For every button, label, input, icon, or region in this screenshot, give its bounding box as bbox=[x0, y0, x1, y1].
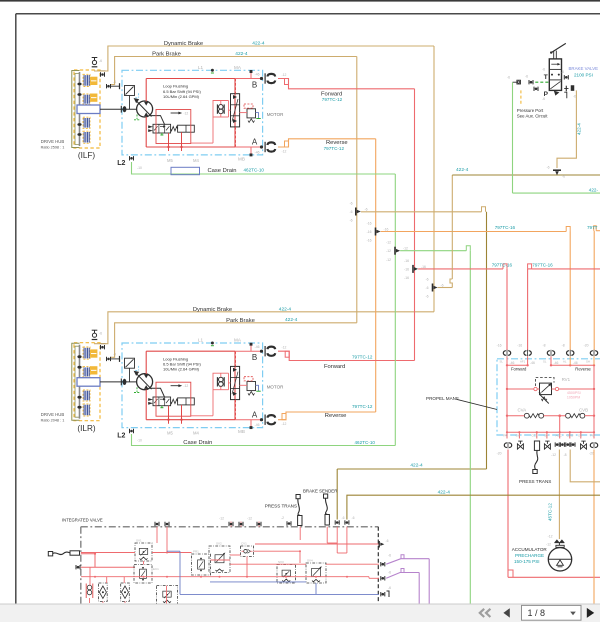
svg-text:-12: -12 bbox=[183, 111, 188, 115]
port B line ILR (red box top to B) bbox=[235, 343, 263, 353]
label RV1 pressure (pink) bbox=[567, 391, 581, 400]
svg-text:L1: L1 bbox=[198, 338, 204, 343]
L1 port tick ILF bbox=[211, 69, 214, 73]
svg-text:-16: -16 bbox=[404, 276, 409, 280]
wire dynamic brake ILR (tan) bbox=[94, 312, 434, 344]
svg-text:RV1: RV1 bbox=[562, 377, 571, 382]
pilot dashes ILR (red) bbox=[229, 351, 236, 419]
accumulator inlet fitting bbox=[546, 535, 564, 548]
drive hub ILR axle block bbox=[77, 378, 100, 387]
svg-text:-12: -12 bbox=[219, 517, 224, 521]
iv wiring red interconnects bbox=[81, 522, 379, 605]
svg-text:T: T bbox=[544, 74, 548, 81]
left edge fitting bbox=[76, 565, 80, 569]
brake shuttle relief ILF bbox=[240, 104, 261, 122]
wire 422-4 trunk y=175 (olive) bbox=[452, 174, 600, 176]
junction J1 park brake (tan) bbox=[349, 202, 367, 223]
svg-text:AF1: AF1 bbox=[520, 359, 526, 363]
manifold bottom fittings bbox=[497, 441, 598, 457]
fitting on boundary x=289 bbox=[281, 516, 291, 526]
label DRIVE HUB ILF bbox=[41, 139, 65, 149]
port B coupler ILF bbox=[265, 73, 286, 84]
junction J5 dynamic brake tie (tan) bbox=[425, 278, 443, 299]
wire forward vertical x=414.5 bbox=[414, 89, 416, 361]
svg-text:422-: 422- bbox=[589, 187, 599, 192]
svg-text:Park Brake: Park Brake bbox=[226, 318, 255, 324]
svg-text:M4: M4 bbox=[193, 158, 199, 163]
hub ILR bleeder fitting bbox=[92, 330, 102, 339]
wire manifold PA down (red) bbox=[508, 450, 600, 578]
svg-text:-6: -6 bbox=[99, 332, 102, 336]
shuttle wiring ILR (red) bbox=[191, 373, 229, 416]
manifold top port names bbox=[500, 359, 590, 363]
svg-text:2100 PSI: 2100 PSI bbox=[574, 73, 593, 78]
svg-text:-6: -6 bbox=[542, 68, 545, 72]
svg-text:BRAKE SENDER: BRAKE SENDER bbox=[303, 489, 337, 494]
toolbar next-page arrow bbox=[587, 608, 594, 618]
main relief valve ILF (vertical 3-section) bbox=[231, 94, 240, 127]
svg-text:797TC-16: 797TC-16 bbox=[532, 263, 553, 268]
wire brake valve feed (tan) bbox=[557, 90, 576, 168]
svg-text:BRAKE VALVE: BRAKE VALVE bbox=[569, 66, 599, 71]
bulkhead fitting on 422-4 trunk bbox=[546, 166, 565, 179]
loop flushing box ILF (red) bbox=[146, 79, 235, 148]
drive hub ILR shaft bbox=[77, 345, 81, 419]
svg-text:797TC-12: 797TC-12 bbox=[324, 146, 345, 151]
port A coupler ILR bbox=[265, 415, 286, 427]
orifice ILF (square with diagonal) bbox=[125, 86, 135, 110]
accumulator gas charge triangle bbox=[557, 560, 564, 567]
manifold bottom port labels bbox=[503, 433, 595, 437]
drive hub ILF gear blocks (yellow) bbox=[91, 77, 98, 101]
shuttle valve ILF bbox=[217, 104, 224, 113]
svg-text:See Aux. Circuit: See Aux. Circuit bbox=[517, 114, 548, 119]
svg-text:SV4: SV4 bbox=[307, 559, 313, 563]
svg-text:-12: -12 bbox=[282, 149, 287, 153]
svg-text:-46: -46 bbox=[510, 361, 515, 365]
wire red vertical x=507 to manifold bbox=[506, 269, 508, 350]
svg-text:797TC-16: 797TC-16 bbox=[495, 225, 516, 230]
svg-text:10L/Min (2.64 GPM): 10L/Min (2.64 GPM) bbox=[163, 94, 200, 99]
wire case drain trunk y=250.7 (green) bbox=[400, 246, 470, 251]
svg-text:L1: L1 bbox=[198, 65, 204, 70]
wire orange vertical x=570.2 to manifold bbox=[569, 232, 571, 351]
drive hub ILF brake packs (blue discs) bbox=[83, 74, 90, 143]
hub ILF brake port fitting 2 bbox=[107, 80, 120, 89]
shuttle wiring ILF (red) bbox=[191, 101, 229, 144]
brake valve T drain fittings bbox=[507, 75, 533, 85]
junction J3 case drain (green) bbox=[386, 241, 408, 262]
svg-text:DRIVE HUB: DRIVE HUB bbox=[41, 139, 65, 144]
brake valve body (3-position) bbox=[549, 59, 561, 96]
svg-text:Ratio 2048 : 1: Ratio 2048 : 1 bbox=[41, 418, 65, 422]
shift spool ILF bbox=[178, 125, 195, 132]
svg-text:PB: PB bbox=[591, 433, 595, 437]
svg-text:ACC: ACC bbox=[556, 433, 563, 437]
svg-text:-46: -46 bbox=[255, 423, 260, 427]
svg-text:45TC-12: 45TC-12 bbox=[548, 503, 553, 521]
wire case drain vertical x=395.3 bbox=[394, 174, 396, 446]
svg-text:-12: -12 bbox=[282, 346, 287, 350]
port A coupler ILF bbox=[265, 142, 286, 154]
iv valve SV4 bbox=[306, 559, 326, 584]
wire orange from right edge x=594.2 bbox=[594, 226, 600, 351]
toolbar page box 1 / 8 bbox=[522, 605, 582, 620]
svg-text:-6: -6 bbox=[342, 516, 345, 520]
svg-text:-12: -12 bbox=[386, 241, 391, 245]
svg-text:-6: -6 bbox=[349, 210, 352, 214]
drive hub ILF yellow housing bbox=[72, 70, 100, 148]
wire forward ILF (red) bbox=[278, 79, 415, 89]
svg-text:-8: -8 bbox=[562, 344, 565, 348]
svg-text:797TC-12: 797TC-12 bbox=[352, 404, 373, 409]
svg-text:-46: -46 bbox=[255, 72, 260, 76]
svg-text:-46: -46 bbox=[573, 361, 578, 365]
toolbar first-page button (double chevron, disabled) bbox=[480, 609, 491, 617]
svg-text:-12: -12 bbox=[247, 517, 252, 521]
wire reverse trunk y=231.5 (orange) bbox=[381, 227, 571, 232]
wire park brake ILF (tan) bbox=[111, 57, 357, 85]
hub ILR brake port fitting 1 bbox=[100, 344, 106, 350]
svg-text:-6: -6 bbox=[441, 283, 444, 287]
hub ILF brake port fitting 1 bbox=[100, 71, 106, 77]
propel manifold boundary (light blue) bbox=[497, 359, 600, 435]
viewer top edge bar bbox=[0, 0, 600, 2]
svg-text:G2: G2 bbox=[578, 433, 582, 437]
iv check valve C1 (dual circle) bbox=[86, 584, 93, 599]
svg-text:-6: -6 bbox=[425, 278, 428, 282]
pressure transducer manifold bbox=[533, 441, 540, 474]
svg-text:-6: -6 bbox=[546, 166, 549, 170]
shuttle valve ILR bbox=[217, 377, 224, 386]
iv valve SV2 bbox=[209, 542, 230, 573]
svg-text:MOTOR: MOTOR bbox=[267, 385, 284, 390]
svg-text:Forward: Forward bbox=[511, 366, 527, 371]
inner pilot red box ILF bbox=[156, 110, 191, 144]
svg-text:422-4: 422-4 bbox=[410, 463, 423, 469]
wire olive vertical x=337.2 into integrated valve bbox=[336, 469, 338, 520]
flushing valve ILF (3-pos directional) bbox=[148, 124, 177, 135]
svg-text:DRIVE HUB: DRIVE HUB bbox=[41, 412, 65, 417]
wire olive vertical x=486.5 down bbox=[486, 212, 488, 469]
pilot arrow ILF bbox=[171, 111, 189, 115]
svg-text:422-4: 422-4 bbox=[438, 490, 451, 496]
svg-text:-16: -16 bbox=[421, 265, 426, 269]
manifold forward gallery (red) bbox=[506, 364, 529, 432]
svg-text:797T: 797T bbox=[587, 225, 598, 230]
svg-text:422-4: 422-4 bbox=[456, 167, 469, 173]
CV gallery wiring (red) bbox=[506, 414, 595, 432]
wire dynamic brake vertical x=434 to ILR bbox=[433, 46, 435, 312]
loop flushing text ILR bbox=[163, 356, 201, 371]
svg-text:AL: AL bbox=[563, 359, 567, 363]
svg-text:Park Brake: Park Brake bbox=[152, 52, 181, 58]
svg-text:PA: PA bbox=[503, 433, 507, 437]
left harness connector bbox=[48, 551, 79, 556]
svg-text:-6: -6 bbox=[365, 207, 368, 211]
integrated valve boundary (gray dash-dot) bbox=[81, 527, 379, 604]
pilot dashes ILF (red) bbox=[229, 79, 236, 147]
svg-text:1050PM: 1050PM bbox=[567, 395, 580, 399]
svg-text:-6: -6 bbox=[352, 516, 355, 520]
svg-text:462TC-10: 462TC-10 bbox=[244, 168, 265, 173]
svg-text:-12: -12 bbox=[551, 453, 556, 457]
wire purple 2 bbox=[386, 569, 419, 605]
svg-text:Dynamic Brake: Dynamic Brake bbox=[193, 307, 232, 313]
svg-text:-16: -16 bbox=[367, 230, 372, 234]
svg-text:MOTOR: MOTOR bbox=[267, 112, 284, 117]
wire 422-4 bottom run 2 (olive) bbox=[347, 495, 600, 519]
case drain fitting L2 ILF bbox=[117, 156, 142, 170]
pilot arrow ILR bbox=[171, 384, 189, 388]
svg-text:-8: -8 bbox=[542, 344, 545, 348]
svg-text:MB: MB bbox=[238, 157, 245, 162]
svg-text:-20: -20 bbox=[589, 452, 594, 456]
svg-text:-6: -6 bbox=[573, 95, 576, 99]
svg-text:CHO: CHO bbox=[567, 433, 574, 437]
hub ILF bleeder fitting bbox=[92, 58, 102, 67]
svg-text:-10: -10 bbox=[137, 439, 142, 443]
svg-text:(ILR): (ILR) bbox=[77, 424, 95, 433]
svg-text:422-4: 422-4 bbox=[279, 307, 292, 313]
shaft link ILF hub to motor bbox=[100, 106, 137, 113]
motor boundary box ILF (light blue) bbox=[122, 70, 263, 155]
svg-text:-12: -12 bbox=[183, 384, 188, 388]
svg-text:150-175 PSI: 150-175 PSI bbox=[514, 559, 540, 564]
drive hub ILR yellow housing bbox=[72, 343, 100, 421]
wire red from right edge to manifold (x=527.6) bbox=[528, 264, 600, 350]
junction J4 forward (red) bbox=[404, 259, 426, 280]
svg-text:Case Drain: Case Drain bbox=[183, 440, 212, 446]
svg-text:Pressure Port: Pressure Port bbox=[517, 108, 544, 113]
svg-text:PROPEL MANF: PROPEL MANF bbox=[426, 396, 459, 401]
svg-text:MA: MA bbox=[234, 65, 242, 70]
svg-text:Reverse: Reverse bbox=[325, 413, 347, 419]
svg-text:-6: -6 bbox=[507, 76, 510, 80]
wire park brake ILR (tan) bbox=[111, 323, 357, 358]
svg-text:-12: -12 bbox=[548, 535, 553, 539]
wire 422-4 bottom run 1 (olive) bbox=[337, 468, 486, 470]
svg-text:-16: -16 bbox=[367, 239, 372, 243]
svg-text:CC2: CC2 bbox=[532, 433, 538, 437]
svg-text:Reverse: Reverse bbox=[575, 366, 591, 371]
svg-text:-46: -46 bbox=[530, 361, 535, 365]
svg-text:PRESS TRANS: PRESS TRANS bbox=[519, 479, 551, 484]
wire J5 branch to 422-4 riser bbox=[438, 175, 453, 288]
brake shuttle relief ILR bbox=[240, 377, 261, 395]
wire park brake trunk right y=212 (olive) bbox=[361, 207, 486, 212]
svg-text:-20: -20 bbox=[544, 433, 549, 437]
svg-text:-12: -12 bbox=[546, 543, 551, 547]
hub ILR brake port fitting 2 bbox=[107, 353, 120, 362]
svg-text:INTEGRATED VALVE: INTEGRATED VALVE bbox=[62, 517, 103, 522]
iv valve PR1 bbox=[192, 550, 211, 576]
svg-text:SH: SH bbox=[586, 359, 590, 363]
shift spool ILR bbox=[178, 398, 195, 405]
iv check valve C3 (diamond) bbox=[121, 583, 130, 601]
inner pilot red box ILR bbox=[156, 382, 191, 416]
loop flushing box ILR (red) bbox=[146, 351, 235, 420]
svg-text:-6: -6 bbox=[388, 586, 391, 590]
wire accumulator feed (tan) bbox=[558, 450, 560, 540]
accumulator shell bbox=[548, 548, 571, 571]
svg-text:-6: -6 bbox=[386, 539, 389, 543]
main relief valve ILR (vertical 3-section) bbox=[231, 366, 240, 399]
svg-text:Case Drain: Case Drain bbox=[208, 168, 237, 174]
iv edge fitting red 1 bbox=[379, 539, 388, 548]
svg-text:-16: -16 bbox=[367, 222, 372, 226]
svg-text:-2: -2 bbox=[281, 516, 284, 520]
svg-text:-46: -46 bbox=[255, 151, 260, 155]
wire brake feed right (tan) bbox=[570, 450, 600, 482]
svg-text:-10: -10 bbox=[137, 166, 142, 170]
motor boundary box ILR (light blue) bbox=[122, 343, 263, 428]
svg-text:B: B bbox=[252, 353, 257, 362]
wire case drain ILF (green) bbox=[132, 162, 396, 174]
svg-text:-12: -12 bbox=[386, 249, 391, 253]
wire reverse vertical x=375.7 bbox=[375, 139, 377, 412]
svg-text:797TC-12: 797TC-12 bbox=[322, 97, 343, 102]
brake valve port T bbox=[535, 68, 549, 83]
wire dynamic brake ILF (tan) bbox=[94, 46, 434, 71]
port A line ILR bbox=[235, 418, 263, 429]
svg-text:-8: -8 bbox=[563, 453, 566, 457]
svg-text:-6: -6 bbox=[542, 97, 545, 101]
svg-text:-6: -6 bbox=[562, 175, 565, 179]
svg-text:Ratio 2598 : 1: Ratio 2598 : 1 bbox=[41, 146, 65, 150]
svg-text:1 / 8: 1 / 8 bbox=[528, 608, 546, 618]
port B coupler ILR bbox=[265, 346, 286, 357]
toolbar prev-page arrow bbox=[503, 608, 509, 617]
pdf viewer toolbar bbox=[0, 604, 600, 622]
svg-text:CVB: CVB bbox=[579, 407, 588, 412]
drive hub ILF shaft bbox=[77, 72, 81, 146]
svg-text:PR1: PR1 bbox=[193, 550, 199, 554]
svg-text:797TC-16: 797TC-16 bbox=[492, 263, 513, 268]
manifold port drops (red) bbox=[507, 356, 578, 365]
svg-text:462TC-10: 462TC-10 bbox=[355, 440, 376, 445]
svg-text:-6: -6 bbox=[388, 571, 391, 575]
port A line ILF bbox=[235, 145, 263, 156]
manifold reverse gallery (red) bbox=[550, 356, 595, 432]
iv edge fitting purple 1 bbox=[381, 554, 391, 567]
svg-text:M5: M5 bbox=[167, 431, 173, 436]
iv solenoid valve SV1 bbox=[135, 539, 152, 562]
svg-text:Forward: Forward bbox=[324, 364, 345, 370]
svg-text:CV1: CV1 bbox=[241, 542, 247, 546]
svg-text:-16: -16 bbox=[384, 227, 389, 231]
brake valve port P bbox=[534, 87, 549, 101]
iv edge fitting purple 2 bbox=[381, 571, 391, 581]
svg-text:-16: -16 bbox=[517, 344, 522, 348]
svg-text:SL: SL bbox=[543, 359, 547, 363]
flushing drain lines ILF (red) bbox=[167, 132, 182, 151]
svg-text:A: A bbox=[252, 138, 258, 147]
hydraulic motor ILR bbox=[134, 366, 165, 397]
iv wiring blue interconnects bbox=[167, 551, 379, 594]
wire reverse ILF (orange) bbox=[278, 139, 376, 147]
flushing valve ILR (3-pos directional) bbox=[148, 397, 177, 408]
svg-text:422-4: 422-4 bbox=[235, 51, 248, 57]
svg-text:-6: -6 bbox=[349, 219, 352, 223]
svg-text:SV3: SV3 bbox=[278, 560, 284, 564]
svg-text:10L/Min (2.64 GPM): 10L/Min (2.64 GPM) bbox=[163, 367, 200, 372]
press trans sender 1 bbox=[296, 495, 302, 526]
svg-text:CVA: CVA bbox=[518, 407, 527, 412]
relief valve RV1 bbox=[536, 377, 555, 403]
check valve CVA bbox=[524, 413, 543, 418]
svg-text:M4: M4 bbox=[193, 431, 199, 436]
wire case drain ILR (green) bbox=[132, 434, 396, 446]
wire green vertical x=470.3 down bbox=[469, 251, 471, 604]
svg-text:-12: -12 bbox=[282, 73, 287, 77]
iv check valve C2 (diamond) bbox=[99, 583, 108, 601]
svg-text:(ILF): (ILF) bbox=[78, 151, 96, 160]
wire forward ILR (red) bbox=[278, 351, 415, 360]
iv edge fitting blue bbox=[381, 586, 391, 597]
svg-text:-6: -6 bbox=[99, 59, 102, 63]
wire park brake vertical x=356.8 to ILR bbox=[356, 57, 358, 323]
pressure port pilot (yellow dashed) bbox=[520, 90, 522, 105]
iv valve DR1 bbox=[157, 586, 178, 609]
svg-text:PRECHARGE: PRECHARGE bbox=[515, 553, 544, 558]
svg-text:M5: M5 bbox=[167, 158, 173, 163]
iv top boundary fittings bbox=[155, 517, 261, 527]
svg-text:-6: -6 bbox=[425, 286, 428, 290]
svg-text:-6: -6 bbox=[525, 75, 528, 79]
svg-text:Dynamic Brake: Dynamic Brake bbox=[164, 41, 203, 47]
iv wiring red feed top bbox=[81, 553, 135, 568]
svg-text:L2: L2 bbox=[117, 160, 125, 167]
svg-text:-46: -46 bbox=[554, 361, 559, 365]
brake valve lever bbox=[550, 43, 566, 59]
wire forward trunk y=268.9 (red) bbox=[418, 264, 507, 269]
hydraulic motor ILF bbox=[134, 93, 165, 124]
drive hub ILF axle block bbox=[77, 105, 100, 114]
shaft link ILR hub to motor bbox=[100, 379, 137, 386]
wire brake valve tank line (green) bbox=[513, 82, 600, 193]
svg-text:797TC-12: 797TC-12 bbox=[352, 354, 373, 359]
svg-text:422-4: 422-4 bbox=[285, 317, 298, 323]
svg-text:-12: -12 bbox=[282, 422, 287, 426]
orifice ILR (square with diagonal) bbox=[125, 358, 135, 382]
svg-text:A: A bbox=[252, 410, 258, 419]
RV1 bridge wiring (red) bbox=[506, 387, 595, 390]
svg-text:MB: MB bbox=[238, 429, 245, 434]
svg-text:L2: L2 bbox=[117, 433, 125, 440]
label DRIVE HUB ILR bbox=[41, 412, 65, 422]
svg-text:-12: -12 bbox=[386, 258, 391, 262]
svg-text:-6: -6 bbox=[561, 70, 564, 74]
svg-text:ACCUMULATOR: ACCUMULATOR bbox=[512, 547, 548, 552]
label PROPEL MANF with pointer bbox=[426, 396, 497, 409]
svg-text:422-4: 422-4 bbox=[252, 41, 265, 47]
svg-text:-20: -20 bbox=[497, 452, 502, 456]
svg-text:-16: -16 bbox=[404, 259, 409, 263]
iv valve SV3 bbox=[277, 560, 296, 583]
flushing drain lines ILR (red) bbox=[167, 405, 182, 424]
brake valve outlet fittings bbox=[561, 70, 576, 99]
svg-text:SV2: SV2 bbox=[216, 542, 222, 546]
fittings 422-4 risers into block bbox=[335, 516, 354, 525]
port B line ILF (red box top to B) bbox=[235, 70, 263, 80]
iv check CV1 bbox=[241, 542, 254, 557]
wire reverse ILR (orange) bbox=[278, 412, 376, 420]
svg-text:4500PSI: 4500PSI bbox=[567, 391, 581, 395]
svg-text:-46: -46 bbox=[255, 345, 260, 349]
svg-text:-16: -16 bbox=[404, 267, 409, 271]
L1 port tick ILR bbox=[211, 342, 214, 346]
